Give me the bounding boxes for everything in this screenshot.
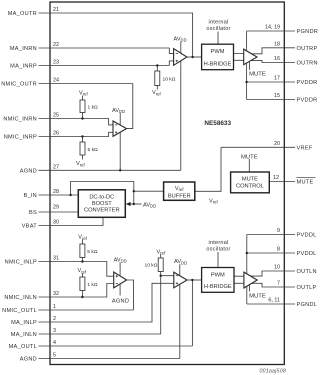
wire B_IN riser to Vref buffer and AVDD <box>71 182 134 205</box>
svg-text:5 kΩ: 5 kΩ <box>88 147 99 153</box>
wire pin6_11 PGNDL <box>247 303 295 305</box>
wire pin14_19 PGNDR <box>247 30 295 32</box>
resistor 5k leads <box>82 137 84 160</box>
junction dot AGND NMIC-R <box>119 169 121 171</box>
wire pin28 B_IN <box>39 194 79 196</box>
Vref buffer box <box>164 182 195 200</box>
minus NMIC-R <box>115 124 117 126</box>
svg-text:OUTRN: OUTRN <box>297 61 318 67</box>
svg-text:MUTE: MUTE <box>249 72 266 78</box>
plus NMIC-L <box>116 275 118 277</box>
svg-text:PVDDR: PVDDR <box>297 80 318 86</box>
wire to Vref buffer input <box>134 190 164 192</box>
svg-text:7: 7 <box>277 281 280 287</box>
svg-text:29: 29 <box>53 205 59 211</box>
svg-text:14, 19: 14, 19 <box>265 25 280 31</box>
svg-text:AVDD: AVDD <box>174 37 187 43</box>
resistor 1k leads <box>82 96 84 119</box>
svg-text:internal: internal <box>208 20 228 26</box>
wire pin27 AGND rail <box>39 169 181 171</box>
wire pin15 PVDDR <box>247 99 295 101</box>
svg-text:BOOST: BOOST <box>92 201 112 207</box>
junction dot pin23 10k <box>156 64 158 66</box>
svg-text:MA_OUTR: MA_OUTR <box>8 11 37 17</box>
svg-text:3: 3 <box>53 328 56 334</box>
wire pin30 VBAT <box>39 217 104 225</box>
resistor 10k L leads <box>160 254 162 276</box>
junction dot pin17 PVDDR <box>245 81 247 83</box>
wire NMIC-L feedback to pin1 <box>127 280 134 310</box>
wire pin26 NMIC_INRP to amp <box>39 132 114 136</box>
svg-text:8: 8 <box>277 247 280 253</box>
op-amp MA-L <box>174 272 187 288</box>
IC boundary box NE58633 <box>50 2 284 365</box>
svg-text:30: 30 <box>53 220 59 226</box>
minus MA-L <box>176 275 178 277</box>
plus MA-L <box>176 282 178 284</box>
svg-text:Vref: Vref <box>209 199 218 205</box>
svg-text:10: 10 <box>274 265 280 271</box>
svg-text:NMIC_INLN: NMIC_INLN <box>4 295 37 301</box>
svg-text:PGNDL: PGNDL <box>297 302 318 308</box>
svg-text:5: 5 <box>53 353 56 359</box>
wire pin2 MA_INLP to amp <box>39 283 174 322</box>
svg-text:oscillator: oscillator <box>206 246 230 252</box>
svg-text:1 kΩ: 1 kΩ <box>88 105 99 111</box>
op-amp polarity marks <box>115 53 178 284</box>
wire pin5 AGND <box>39 358 180 360</box>
svg-text:27: 27 <box>53 164 59 170</box>
svg-text:26: 26 <box>53 131 59 137</box>
svg-text:31: 31 <box>53 256 59 262</box>
wire internal oscillator lead top <box>217 32 219 45</box>
driver amplifier right channel <box>244 49 257 65</box>
wire pin16 OUTRN hook <box>251 61 295 63</box>
svg-text:Vref: Vref <box>152 90 161 96</box>
resistor 5k R body <box>80 142 85 155</box>
junction dot pin26 5k <box>81 135 83 137</box>
svg-text:BUFFER: BUFFER <box>168 194 191 200</box>
svg-text:PWM: PWM <box>211 49 225 55</box>
wire op-amp MA-R output to PWM <box>187 56 202 58</box>
svg-text:AGND: AGND <box>20 168 37 174</box>
svg-text:CONTROL: CONTROL <box>236 184 264 190</box>
LEFT PIN NUMBERS <box>53 7 59 359</box>
wire PVDDR vertical <box>246 60 248 100</box>
svg-text:1: 1 <box>53 304 56 310</box>
svg-text:NMIC_OUTL: NMIC_OUTL <box>2 308 37 314</box>
junction dot buffer branch <box>133 190 135 192</box>
wire pin12 MUTE <box>269 181 295 183</box>
svg-text:Vref: Vref <box>78 235 87 241</box>
arrowhead AVDD into DC-DC <box>126 202 131 206</box>
svg-text:B_IN: B_IN <box>23 193 37 199</box>
svg-text:AVDD: AVDD <box>143 202 156 208</box>
wire pin31 NMIC_INLP to amp <box>39 262 114 277</box>
wire feedback right vertical NMIC-R <box>127 84 133 129</box>
overline MUTE <box>297 176 316 178</box>
wire pin22 MA_INRN to amp inverting input <box>39 48 174 53</box>
svg-text:PVDDL: PVDDL <box>297 251 317 257</box>
wire pin25 NMIC_INRN to amp <box>39 119 114 125</box>
svg-text:Vref: Vref <box>175 186 184 192</box>
svg-text:25: 25 <box>53 113 59 119</box>
svg-text:2: 2 <box>53 316 56 322</box>
junction dot MA-R output <box>191 56 193 58</box>
svg-text:H-BRIDGE: H-BRIDGE <box>204 284 232 290</box>
svg-text:32: 32 <box>53 291 59 297</box>
wire pin7 OUTLP hook <box>252 283 295 287</box>
wire AVDD stub at DC-DC <box>127 203 142 205</box>
svg-text:VBAT: VBAT <box>22 224 38 230</box>
wire AVDD lead and ground vertical of NMIC-R <box>119 113 121 170</box>
svg-text:24: 24 <box>53 78 59 84</box>
svg-text:PVDDL: PVDDL <box>297 233 317 239</box>
svg-text:17: 17 <box>274 76 280 82</box>
svg-text:MUTE: MUTE <box>242 177 258 183</box>
wire pin21 MA_OUTR feedback <box>39 13 193 57</box>
RIGHT PIN NUMBERS <box>265 25 280 304</box>
PWM H-BRIDGE box right <box>202 44 234 69</box>
svg-text:MUTE: MUTE <box>297 180 314 186</box>
resistor 1k L body <box>80 277 85 291</box>
svg-text:OUTLP: OUTLP <box>297 285 317 291</box>
wire pin10 OUTLN hook <box>251 271 296 276</box>
svg-text:23: 23 <box>53 60 59 66</box>
svg-text:10 kΩ: 10 kΩ <box>145 262 158 268</box>
svg-text:Vref: Vref <box>78 268 87 274</box>
resistor 10k lead top <box>156 66 158 72</box>
junction dot pin32 1k <box>81 296 83 298</box>
wire MA-L output to pin4 <box>191 280 193 346</box>
svg-text:Vref: Vref <box>157 249 166 255</box>
wire AVDD lead and ground of NMIC-L <box>119 262 121 295</box>
junction dot pin8 PVDDL <box>246 252 248 254</box>
svg-text:PWM: PWM <box>211 272 225 278</box>
DC-to-DC boost converter box <box>78 190 125 218</box>
svg-text:DC-to-DC: DC-to-DC <box>89 194 114 200</box>
resistor 5k L body <box>80 244 85 258</box>
svg-text:Vref: Vref <box>79 90 88 96</box>
svg-text:NMIC_INRP: NMIC_INRP <box>4 135 37 141</box>
svg-text:AVDD: AVDD <box>114 257 127 263</box>
wire pin4 MA_OUTL <box>39 345 193 347</box>
LEFT PIN LABELS <box>1 11 37 363</box>
op-amp NMIC-R <box>113 121 127 136</box>
resistor 1k L leads <box>81 273 83 297</box>
op-amp MA-R <box>174 49 187 66</box>
svg-text:OUTLN: OUTLN <box>297 269 317 275</box>
wire pin23 MA_INRP to amp non-inverting input <box>39 61 174 66</box>
svg-text:VREF: VREF <box>297 145 313 151</box>
svg-text:internal: internal <box>208 240 228 246</box>
junction dot pin28 <box>69 194 71 196</box>
junction dot AVDD stub <box>133 203 135 205</box>
wire PGNDR vertical <box>246 31 248 52</box>
wire PWM L to driver inputs <box>234 276 244 283</box>
plus MA-R <box>176 60 178 62</box>
svg-text:NMIC_INLP: NMIC_INLP <box>5 260 37 266</box>
wire PVDDL vertical <box>246 235 248 274</box>
box and misc texts <box>84 20 266 305</box>
svg-text:BS: BS <box>29 210 37 216</box>
svg-text:5 kΩ: 5 kΩ <box>87 249 98 255</box>
svg-text:20: 20 <box>274 141 280 147</box>
wire pin32 NMIC_INLN to amp <box>39 284 114 298</box>
svg-text:OUTRP: OUTRP <box>297 46 318 52</box>
svg-text:NMIC_INRN: NMIC_INRN <box>3 117 37 123</box>
svg-text:MUTE: MUTE <box>241 154 258 160</box>
wire MUTE stub driver R <box>248 60 250 70</box>
wire pin17 PVDDR <box>247 81 295 83</box>
op-amp NMIC-L <box>114 272 127 288</box>
svg-text:MA_INLN: MA_INLN <box>11 332 37 338</box>
svg-text:6, 11: 6, 11 <box>268 298 280 304</box>
svg-text:AGND: AGND <box>112 298 129 304</box>
junction dot 10k L <box>160 275 162 277</box>
wire PGNDL vertical <box>246 287 248 305</box>
RIGHT PIN LABELS <box>297 29 319 308</box>
svg-text:NMIC_OUTR: NMIC_OUTR <box>1 82 37 88</box>
wire PWM R to driver inputs <box>234 54 244 61</box>
resistor 10k lead bottom <box>156 86 158 90</box>
wire MUTE stub driver L <box>248 285 250 292</box>
wire internal oscillator lead bottom <box>217 252 219 268</box>
svg-text:AVDD: AVDD <box>174 259 187 265</box>
svg-text:9: 9 <box>277 228 280 234</box>
junction dot pin25 1k <box>81 117 83 119</box>
resistor 5k L leads <box>81 240 83 262</box>
svg-text:001aaj508: 001aaj508 <box>259 368 286 374</box>
svg-text:12: 12 <box>273 175 279 181</box>
svg-text:MA_INRP: MA_INRP <box>10 64 37 70</box>
svg-text:NE58633: NE58633 <box>204 120 231 127</box>
svg-text:PVDDR: PVDDR <box>297 98 318 104</box>
junction dot MA-L output <box>191 279 193 281</box>
svg-text:10 kΩ: 10 kΩ <box>163 77 176 83</box>
svg-text:4: 4 <box>53 340 56 346</box>
wire pin24 NMIC_OUTR <box>39 83 133 85</box>
wire AVDD lead and AGND vertical of MA-L <box>179 264 181 358</box>
svg-text:21: 21 <box>53 7 59 13</box>
wire pin20 VREF <box>221 146 295 148</box>
driver amplifier left channel <box>244 272 257 288</box>
svg-text:PGNDR: PGNDR <box>297 29 319 35</box>
svg-text:22: 22 <box>53 42 59 48</box>
minus NMIC-L <box>116 283 118 285</box>
wire pin1 NMIC_OUTL <box>39 309 134 311</box>
svg-text:MUTE: MUTE <box>249 294 266 300</box>
MUTE CONTROL box <box>231 172 270 193</box>
wire pin18 OUTRP hook <box>252 48 295 54</box>
wire MUTE label lead to mute control <box>248 159 250 172</box>
svg-text:15: 15 <box>274 93 280 99</box>
svg-text:oscillator: oscillator <box>206 26 230 32</box>
wire pin8 PVDDL <box>247 252 295 254</box>
wire pin9 PVDDL <box>247 234 295 236</box>
svg-text:MA_OUTL: MA_OUTL <box>9 344 37 350</box>
svg-text:AVDD: AVDD <box>112 108 125 114</box>
wire MA-L output to PWM <box>187 279 202 281</box>
minus MA-R <box>176 52 178 54</box>
svg-text:18: 18 <box>274 41 280 47</box>
wire AVDD lead and AGND vertical of MA-R <box>180 42 182 171</box>
svg-text:MA_INLP: MA_INLP <box>11 320 37 326</box>
wire pin29 BS <box>39 211 79 213</box>
svg-text:H-BRIDGE: H-BRIDGE <box>204 62 232 68</box>
junction dot pin31 5k <box>81 260 83 262</box>
PWM H-BRIDGE box left <box>202 268 234 293</box>
svg-text:CONVERTER: CONVERTER <box>84 208 120 214</box>
svg-text:MA_INRN: MA_INRN <box>10 46 37 52</box>
resistor 1k R body <box>80 100 85 113</box>
svg-text:Vref: Vref <box>76 161 85 167</box>
svg-text:1 kΩ: 1 kΩ <box>87 282 98 288</box>
wire Vref buffer output to VREF pin 20 <box>195 147 221 191</box>
resistor 10k R body <box>155 71 160 86</box>
svg-text:AGND: AGND <box>20 357 37 363</box>
resistor 10k L body <box>158 258 163 272</box>
svg-text:16: 16 <box>274 56 280 62</box>
plus NMIC-R <box>115 131 117 133</box>
svg-text:28: 28 <box>53 189 59 195</box>
wire pin3 MA_INLN to amp <box>39 276 174 334</box>
